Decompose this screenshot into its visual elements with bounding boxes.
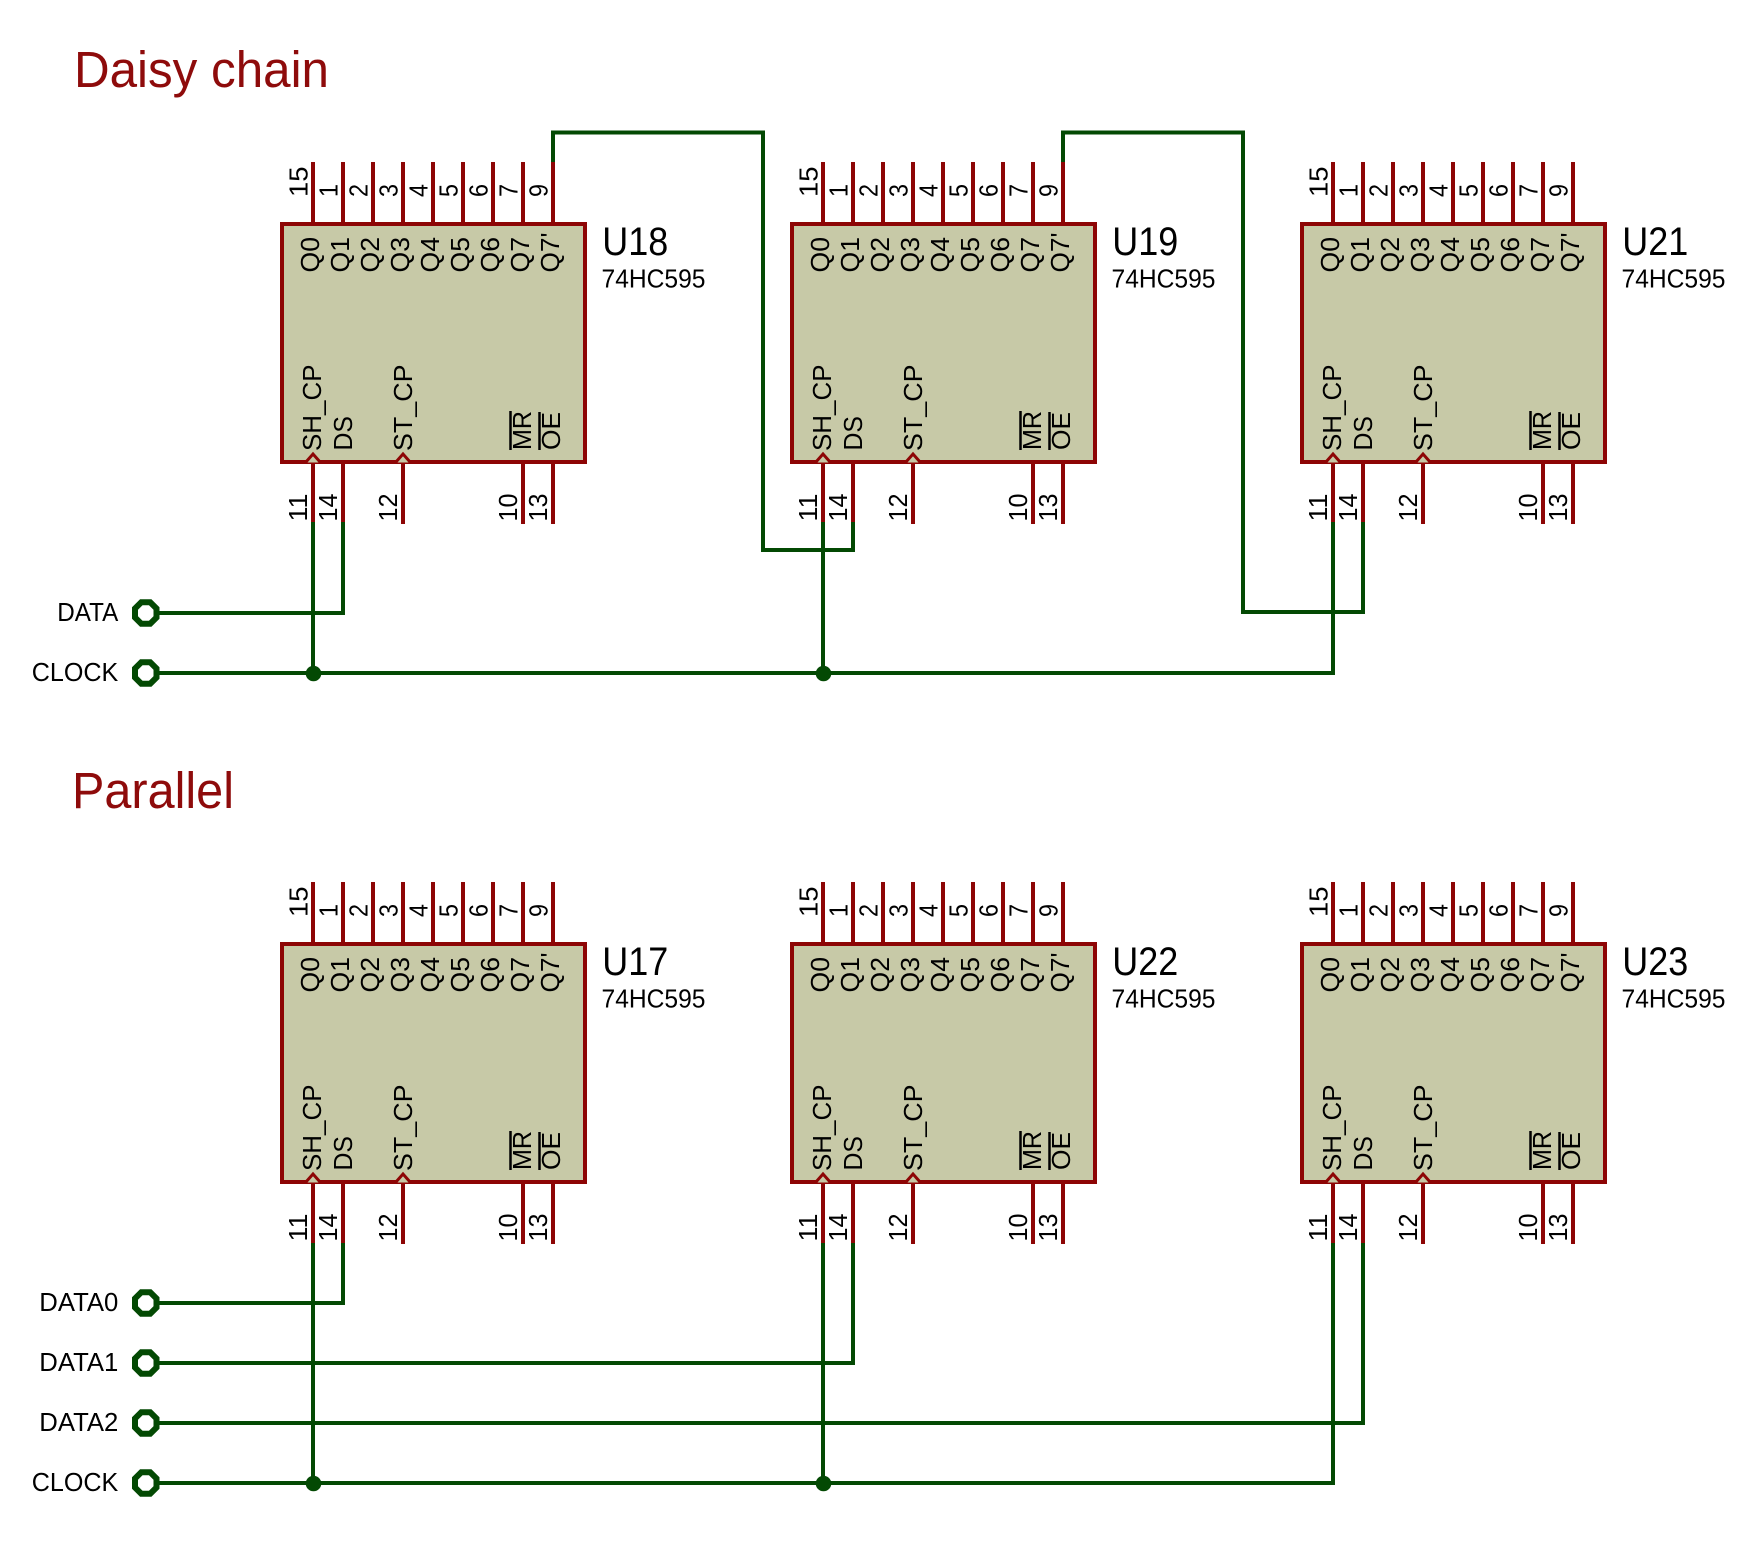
svg-text:13: 13 [523,494,553,522]
U23 pin 11 [1331,1184,1335,1244]
U19 pin 6 (Q6) [1001,162,1005,222]
svg-text:Q1: Q1 [1345,957,1375,993]
wire U22 SH_CP to CLOCK [821,1243,825,1483]
terminal CLOCK (parallel) [135,1472,157,1494]
svg-text:DATA1: DATA1 [39,1347,118,1377]
U23 pin 15 (Q0) [1331,882,1335,942]
svg-text:Q6: Q6 [1495,237,1525,273]
IC U23 74HC595 shift register [1302,882,1726,1244]
U21 pin 6 (Q6) [1511,162,1515,222]
svg-text:SH_CP: SH_CP [297,365,327,452]
U21 pin 4 (Q4) [1451,162,1455,222]
svg-text:74HC595: 74HC595 [602,984,706,1014]
svg-text:11: 11 [283,1214,313,1242]
svg-text:11: 11 [793,1214,823,1242]
svg-text:SH_CP: SH_CP [1317,1085,1347,1172]
svg-text:Q4: Q4 [415,957,445,993]
U17 pin 5 (Q5) [461,882,465,942]
svg-text:Q2: Q2 [865,957,895,993]
svg-text:Q2: Q2 [1375,237,1405,273]
svg-text:ST_CP: ST_CP [1408,1085,1438,1172]
svg-text:DS: DS [328,1136,358,1171]
svg-text:DS: DS [1348,416,1378,451]
U22 clock edge marker [906,1174,921,1183]
svg-text:2: 2 [344,184,374,197]
U23 clock edge marker [1416,1174,1431,1183]
svg-text:5: 5 [944,904,974,917]
U19 pin 14 [851,464,855,524]
U17 pin 9 (Q7') [551,882,555,942]
U19 pin 9 (Q7') [1061,162,1065,222]
U19 pin 12 [911,464,915,524]
U19 clock edge marker [816,454,831,463]
svg-text:ST_CP: ST_CP [898,365,928,452]
svg-text:4: 4 [1424,904,1454,917]
svg-text:9: 9 [1034,904,1064,917]
svg-text:1: 1 [1334,184,1364,197]
U18 pin 2 (Q2) [371,162,375,222]
svg-text:10: 10 [1003,1214,1033,1242]
svg-text:DS: DS [328,416,358,451]
junction CLOCK / U18 SH_CP [306,666,322,682]
svg-text:15: 15 [284,167,314,198]
svg-text:3: 3 [374,184,404,197]
svg-text:7: 7 [494,904,524,917]
svg-text:Q2: Q2 [355,237,385,273]
U22 pin 1 (Q1) [851,882,855,942]
svg-text:13: 13 [1543,494,1573,522]
svg-text:1: 1 [1334,904,1364,917]
svg-text:6: 6 [464,904,494,917]
U23 pin 3 (Q3) [1421,882,1425,942]
svg-text:U19: U19 [1112,220,1178,264]
U22 pin 2 (Q2) [881,882,885,942]
svg-text:Q3: Q3 [385,237,415,273]
svg-text:Q7': Q7' [535,953,565,993]
U17 pin 10 [521,1184,525,1244]
U21 pin 15 (Q0) [1331,162,1335,222]
terminal DATA2 [135,1412,157,1434]
U19 pin 4 (Q4) [941,162,945,222]
U21 pin 13 [1571,464,1575,524]
svg-text:DS: DS [838,1136,868,1171]
svg-text:Q3: Q3 [385,957,415,993]
U18 pin 9 (Q7') [551,162,555,222]
U18 clock edge marker [396,454,411,463]
svg-text:15: 15 [1304,887,1334,918]
IC U17 74HC595 shift register [282,882,706,1244]
svg-text:Q5: Q5 [445,957,475,993]
U19 pin 15 (Q0) [821,162,825,222]
wire CLOCK bus [158,522,1333,673]
U22 pin 9 (Q7') [1061,882,1065,942]
svg-text:U23: U23 [1622,940,1688,984]
U17 pin 4 (Q4) [431,882,435,942]
svg-text:Q3: Q3 [1405,237,1435,273]
svg-text:74HC595: 74HC595 [1622,264,1726,294]
U23 pin 9 (Q7') [1571,882,1575,942]
svg-text:Q1: Q1 [325,237,355,273]
svg-text:ST_CP: ST_CP [898,1085,928,1172]
svg-text:6: 6 [464,184,494,197]
U23 clock edge marker [1326,1174,1341,1183]
wire U18 Q7' to U19 DS (daisy link 1) [553,133,853,551]
U18 pin 15 (Q0) [311,162,315,222]
svg-text:5: 5 [944,184,974,197]
svg-text:74HC595: 74HC595 [1622,984,1726,1014]
svg-text:Q1: Q1 [325,957,355,993]
U17 pin 1 (Q1) [341,882,345,942]
svg-text:4: 4 [1424,184,1454,197]
U23 pin 6 (Q6) [1511,882,1515,942]
U19 pin 7 (Q7) [1031,162,1035,222]
svg-text:3: 3 [884,184,914,197]
svg-text:Q5: Q5 [955,957,985,993]
U22 body [792,944,1095,1182]
svg-text:U18: U18 [602,220,668,264]
svg-text:5: 5 [434,184,464,197]
svg-text:10: 10 [493,1214,523,1242]
svg-text:Q7': Q7' [1045,233,1075,273]
wire DATA0 to U17 DS [158,1243,343,1303]
U18 pin 3 (Q3) [401,162,405,222]
svg-text:2: 2 [1364,184,1394,197]
svg-text:Q7': Q7' [1555,953,1585,993]
svg-text:Q0: Q0 [1315,237,1345,273]
U23 pin 10 [1541,1184,1545,1244]
junction CLOCK / U17 SH_CP [306,1476,322,1492]
U22 pin 6 (Q6) [1001,882,1005,942]
svg-text:7: 7 [1004,184,1034,197]
svg-text:14: 14 [823,494,853,522]
svg-text:12: 12 [373,494,403,522]
wire CLOCK bus (parallel) [158,1243,1333,1483]
svg-text:Q4: Q4 [925,237,955,273]
U21 body [1302,224,1605,462]
svg-text:2: 2 [1364,904,1394,917]
svg-text:Q1: Q1 [835,957,865,993]
svg-text:12: 12 [1393,494,1423,522]
U22 pin 11 [821,1184,825,1244]
svg-text:5: 5 [1454,184,1484,197]
svg-text:CLOCK: CLOCK [32,657,119,687]
IC U21 74HC595 shift register [1302,162,1726,524]
svg-text:Q0: Q0 [805,237,835,273]
terminal DATA [135,602,157,624]
svg-text:DATA2: DATA2 [39,1407,118,1437]
svg-text:DS: DS [838,416,868,451]
U18 body [282,224,585,462]
svg-text:Q7': Q7' [1555,233,1585,273]
U23 body [1302,944,1605,1182]
U21 pin 3 (Q3) [1421,162,1425,222]
svg-text:ST_CP: ST_CP [1408,365,1438,452]
svg-text:4: 4 [404,904,434,917]
U19 pin 11 [821,464,825,524]
U17 clock edge marker [396,1174,411,1183]
U19 pin 13 [1061,464,1065,524]
svg-text:U22: U22 [1112,940,1178,984]
terminal DATA1 [135,1352,157,1374]
IC U22 74HC595 shift register [792,882,1216,1244]
U23 pin 14 [1361,1184,1365,1244]
svg-text:2: 2 [344,904,374,917]
svg-text:14: 14 [1333,494,1363,522]
wire U19 SH_CP to CLOCK [821,522,825,673]
wire U19 Q7' to U21 DS (daisy link 2) [1063,133,1363,613]
svg-text:U21: U21 [1622,220,1688,264]
svg-text:Q4: Q4 [925,957,955,993]
svg-text:Daisy chain: Daisy chain [74,41,329,98]
svg-text:Q7: Q7 [1015,237,1045,273]
svg-text:12: 12 [373,1214,403,1242]
svg-text:14: 14 [313,1214,343,1242]
U17 pin 11 [311,1184,315,1244]
U19 pin 5 (Q5) [971,162,975,222]
svg-text:5: 5 [434,904,464,917]
U17 body [282,944,585,1182]
svg-text:U17: U17 [602,940,668,984]
svg-text:3: 3 [1394,904,1424,917]
svg-text:Q2: Q2 [1375,957,1405,993]
terminal DATA0 [135,1292,157,1314]
U19 clock edge marker [906,454,921,463]
U21 clock edge marker [1326,454,1341,463]
U22 pin 13 [1061,1184,1065,1244]
svg-text:Q6: Q6 [475,237,505,273]
U19 pin 1 (Q1) [851,162,855,222]
svg-text:3: 3 [884,904,914,917]
U21 clock edge marker [1416,454,1431,463]
svg-text:SH_CP: SH_CP [807,365,837,452]
svg-text:Q6: Q6 [985,957,1015,993]
svg-text:14: 14 [313,494,343,522]
U22 clock edge marker [816,1174,831,1183]
svg-text:7: 7 [494,184,524,197]
U18 pin 1 (Q1) [341,162,345,222]
svg-text:9: 9 [1544,904,1574,917]
U18 clock edge marker [306,454,321,463]
svg-text:6: 6 [1484,184,1514,197]
svg-text:15: 15 [1304,167,1334,198]
svg-text:Q7': Q7' [1045,953,1075,993]
wire DATA2 to U23 DS [158,1243,1363,1423]
U18 pin 4 (Q4) [431,162,435,222]
svg-text:15: 15 [794,887,824,918]
U18 pin 6 (Q6) [491,162,495,222]
svg-text:Q3: Q3 [895,237,925,273]
U22 pin 10 [1031,1184,1035,1244]
svg-text:9: 9 [1544,184,1574,197]
svg-text:Q7: Q7 [1525,237,1555,273]
svg-text:Q0: Q0 [805,957,835,993]
svg-text:Q4: Q4 [1435,957,1465,993]
svg-text:Q2: Q2 [865,237,895,273]
svg-text:74HC595: 74HC595 [1112,264,1216,294]
U21 pin 2 (Q2) [1391,162,1395,222]
svg-text:1: 1 [314,904,344,917]
svg-text:Q3: Q3 [895,957,925,993]
U17 pin 2 (Q2) [371,882,375,942]
svg-text:13: 13 [1033,1214,1063,1242]
svg-text:Parallel: Parallel [72,762,234,819]
svg-text:4: 4 [914,904,944,917]
U17 pin 6 (Q6) [491,882,495,942]
svg-text:Q1: Q1 [1345,237,1375,273]
U21 pin 7 (Q7) [1541,162,1545,222]
U17 pin 14 [341,1184,345,1244]
IC U18 74HC595 shift register [282,162,706,524]
svg-text:Q5: Q5 [955,237,985,273]
svg-text:Q6: Q6 [475,957,505,993]
U21 pin 14 [1361,464,1365,524]
svg-text:10: 10 [493,494,523,522]
wire U18 SH_CP to CLOCK [311,522,315,673]
svg-text:Q0: Q0 [295,957,325,993]
svg-text:5: 5 [1454,904,1484,917]
svg-text:Q6: Q6 [985,237,1015,273]
wire DATA1 to U22 DS [158,1243,853,1363]
svg-text:10: 10 [1513,494,1543,522]
U19 pin 3 (Q3) [911,162,915,222]
U22 pin 5 (Q5) [971,882,975,942]
junction CLOCK / U22 SH_CP [816,1476,832,1492]
svg-text:Q4: Q4 [1435,237,1465,273]
svg-text:Q7: Q7 [1015,957,1045,993]
svg-text:6: 6 [1484,904,1514,917]
U21 pin 1 (Q1) [1361,162,1365,222]
svg-text:CLOCK: CLOCK [32,1467,119,1497]
svg-text:1: 1 [824,904,854,917]
U21 pin 10 [1541,464,1545,524]
svg-text:Q5: Q5 [1465,237,1495,273]
U22 pin 7 (Q7) [1031,882,1035,942]
svg-text:DATA: DATA [57,597,119,627]
U22 pin 12 [911,1184,915,1244]
svg-text:2: 2 [854,184,884,197]
U17 pin 12 [401,1184,405,1244]
U17 pin 3 (Q3) [401,882,405,942]
svg-text:13: 13 [1543,1214,1573,1242]
svg-text:7: 7 [1514,904,1544,917]
U22 pin 4 (Q4) [941,882,945,942]
U18 pin 7 (Q7) [521,162,525,222]
svg-text:Q0: Q0 [1315,957,1345,993]
U17 pin 13 [551,1184,555,1244]
svg-text:12: 12 [1393,1214,1423,1242]
svg-text:15: 15 [794,167,824,198]
svg-text:ST_CP: ST_CP [388,365,418,452]
U23 pin 1 (Q1) [1361,882,1365,942]
svg-text:7: 7 [1004,904,1034,917]
U22 pin 15 (Q0) [821,882,825,942]
svg-text:Q4: Q4 [415,237,445,273]
U23 pin 7 (Q7) [1541,882,1545,942]
IC U19 74HC595 shift register [792,162,1216,524]
U18 pin 10 [521,464,525,524]
U17 pin 7 (Q7) [521,882,525,942]
svg-text:SH_CP: SH_CP [1317,365,1347,452]
svg-text:10: 10 [1513,1214,1543,1242]
U18 pin 5 (Q5) [461,162,465,222]
svg-text:13: 13 [523,1214,553,1242]
U18 pin 11 [311,464,315,524]
wire DATA to U18 DS [158,522,343,613]
svg-text:1: 1 [824,184,854,197]
svg-text:12: 12 [883,494,913,522]
svg-text:12: 12 [883,1214,913,1242]
U23 pin 4 (Q4) [1451,882,1455,942]
U19 body [792,224,1095,462]
U23 pin 12 [1421,1184,1425,1244]
svg-text:14: 14 [823,1214,853,1242]
U22 pin 3 (Q3) [911,882,915,942]
svg-text:74HC595: 74HC595 [602,264,706,294]
svg-text:SH_CP: SH_CP [807,1085,837,1172]
U23 pin 2 (Q2) [1391,882,1395,942]
svg-text:9: 9 [1034,184,1064,197]
terminal CLOCK [135,662,157,684]
svg-text:11: 11 [1303,494,1333,522]
svg-text:3: 3 [374,904,404,917]
svg-text:Q3: Q3 [1405,957,1435,993]
svg-text:4: 4 [404,184,434,197]
svg-text:Q7: Q7 [505,957,535,993]
svg-text:Q6: Q6 [1495,957,1525,993]
svg-text:14: 14 [1333,1214,1363,1242]
junction CLOCK / U19 SH_CP [816,666,832,682]
svg-text:ST_CP: ST_CP [388,1085,418,1172]
U19 pin 2 (Q2) [881,162,885,222]
svg-text:Q7: Q7 [505,237,535,273]
svg-text:Q7': Q7' [535,233,565,273]
svg-text:11: 11 [1303,1214,1333,1242]
svg-text:SH_CP: SH_CP [297,1085,327,1172]
U19 pin 10 [1031,464,1035,524]
svg-text:2: 2 [854,904,884,917]
svg-text:7: 7 [1514,184,1544,197]
U23 pin 13 [1571,1184,1575,1244]
svg-text:11: 11 [283,494,313,522]
svg-text:10: 10 [1003,494,1033,522]
svg-text:15: 15 [284,887,314,918]
U18 pin 12 [401,464,405,524]
svg-text:4: 4 [914,184,944,197]
svg-text:DATA0: DATA0 [39,1287,118,1317]
svg-text:6: 6 [974,904,1004,917]
svg-text:1: 1 [314,184,344,197]
svg-text:Q5: Q5 [1465,957,1495,993]
U21 pin 11 [1331,464,1335,524]
U22 pin 14 [851,1184,855,1244]
svg-text:Q2: Q2 [355,957,385,993]
svg-text:6: 6 [974,184,1004,197]
svg-text:11: 11 [793,494,823,522]
U18 pin 14 [341,464,345,524]
svg-text:9: 9 [524,184,554,197]
U17 clock edge marker [306,1174,321,1183]
U17 pin 15 (Q0) [311,882,315,942]
svg-text:74HC595: 74HC595 [1112,984,1216,1014]
U21 pin 5 (Q5) [1481,162,1485,222]
svg-text:Q7: Q7 [1525,957,1555,993]
U18 pin 13 [551,464,555,524]
svg-text:Q0: Q0 [295,237,325,273]
svg-text:3: 3 [1394,184,1424,197]
wire U17 SH_CP to CLOCK [311,1243,315,1483]
svg-text:9: 9 [524,904,554,917]
svg-text:Q1: Q1 [835,237,865,273]
